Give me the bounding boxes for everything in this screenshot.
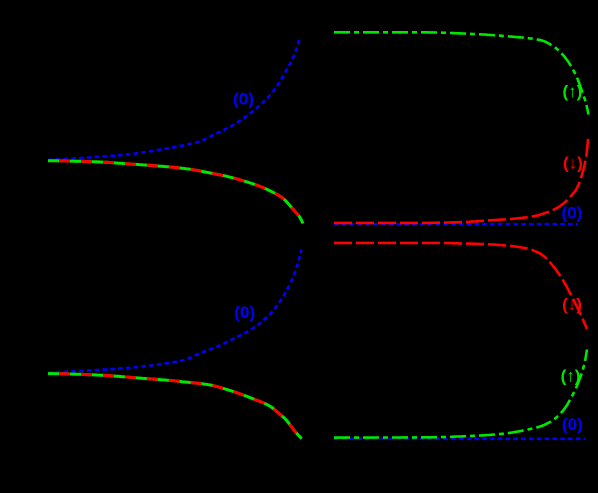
- svg-text:(↓): (↓): [563, 153, 583, 172]
- svg-text:(0): (0): [233, 90, 254, 109]
- curve: bottom-left panel green branch (solid under red dashes), falling: [48, 374, 302, 439]
- svg-text:(0): (0): [562, 204, 583, 223]
- curve: top-left panel red dashed branch overlay, falling: [48, 161, 303, 224]
- curve: bottom-right panel green dash-dot lower branch: [334, 350, 587, 438]
- svg-text:(↑): (↑): [562, 82, 582, 101]
- curve: bottom-left panel red dashed branch overlay, falling: [48, 374, 302, 439]
- curve: top-right panel red dashed lower branch: [334, 135, 589, 223]
- svg-text:(↑): (↑): [561, 367, 581, 386]
- svg-text:(0): (0): [562, 415, 583, 434]
- curve: top-right panel green dash-dot upper branch: [334, 32, 589, 114]
- svg-text:(↓): (↓): [562, 295, 582, 314]
- curve: bottom-left panel blue dotted (0) branch rising: [48, 250, 301, 373]
- curve: bottom-right panel red dashed upper branch: [334, 243, 587, 329]
- curve: top-left panel blue dotted (0) branch rising: [48, 37, 300, 160]
- curve: bottom-right panel blue dotted (0) flat line: [334, 437, 585, 440]
- curve: top-right panel blue dotted (0) flat line: [334, 223, 578, 226]
- curve: top-left panel green branch (solid under red dashes), falling: [48, 161, 303, 224]
- svg-text:(0): (0): [234, 303, 255, 322]
